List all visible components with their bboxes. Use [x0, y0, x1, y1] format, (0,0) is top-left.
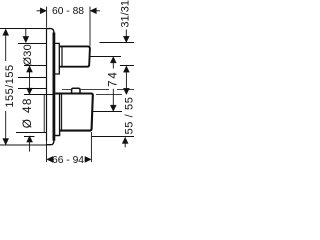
upper knob (shut-off handle, side view): [59, 46, 90, 66]
dimension 74 (between knob centres): [110, 57, 116, 112]
extension line: plate bottom full: [0, 144, 47, 146]
lower knob centre line: [92, 111, 122, 113]
extension line: upper knob bottom (left): [24, 65, 47, 67]
right margin extension line D (tab top level): [62, 89, 134, 91]
right extension line: [89, 7, 91, 46]
dimension Ø30 chain stem + arrow: [23, 29, 29, 43]
lower knob sleeve: [55, 94, 60, 136]
svg-text:60 - 88: 60 - 88: [52, 6, 84, 17]
svg-text:Ø 48: Ø 48: [20, 97, 34, 128]
right margin extension line C (upper knob bottom): [120, 65, 134, 67]
escutcheon plate outline (side view): [47, 29, 54, 145]
extension line: sleeve bottom (left): [24, 136, 35, 138]
svg-text:Ø30: Ø30: [22, 44, 34, 65]
right extension line (knob face extended): [90, 132, 92, 162]
left arrow pointing right: [37, 10, 41, 12]
safety button tab on lower knob: [72, 88, 80, 93]
right margin extension line E (sleeve bottom): [92, 136, 134, 138]
upper valve sleeve/collar: [55, 43, 59, 74]
dimension 155/155 vertical line: [3, 29, 9, 145]
left arrow pointing left: [47, 156, 53, 162]
right margin extension line A (sleeve top): [100, 42, 135, 44]
dimension 60 - 88 (top): [37, 7, 101, 46]
Ø48 vertical reference line beside plate: [43, 95, 45, 133]
extension line: sleeve top (left): [18, 43, 47, 45]
shared outside arrows between Ø30 and Ø48 spans: [27, 66, 33, 95]
extension line: lower knob bottom (left): [16, 132, 47, 134]
31/31 top outside arrow: [123, 30, 129, 43]
right arrow pointing right: [85, 156, 91, 162]
shared arrows between 31/31 and 55/55 spans: [123, 66, 129, 95]
dimension 66 - 94 (bottom): [47, 132, 92, 162]
extension line: lower knob top (left): [24, 94, 55, 96]
extension line: left margin mid 1: [18, 77, 47, 79]
svg-text:66 - 94: 66 - 94: [52, 155, 84, 166]
Ø48 bottom outside arrow: [27, 136, 33, 152]
upper knob inner edge: [61, 46, 63, 66]
lower knob (thermostat handle, side view): [55, 94, 93, 131]
right margin extension line D2 (lower knob top): [96, 94, 122, 96]
right arrow pointing left: [96, 10, 100, 12]
svg-text:55 / 55: 55 / 55: [123, 97, 134, 135]
extension line: plate top: [0, 28, 47, 30]
svg-text:74: 74: [107, 70, 119, 87]
upper knob centre line: [90, 56, 121, 58]
55/55 bottom outside arrow: [122, 137, 128, 147]
svg-text:155/155: 155/155: [4, 64, 16, 107]
left extension line: [46, 7, 48, 28]
extension line: left margin mid 2: [18, 88, 47, 90]
left extension line (plate face extended): [46, 141, 48, 162]
svg-text:31/31: 31/31: [120, 0, 132, 28]
